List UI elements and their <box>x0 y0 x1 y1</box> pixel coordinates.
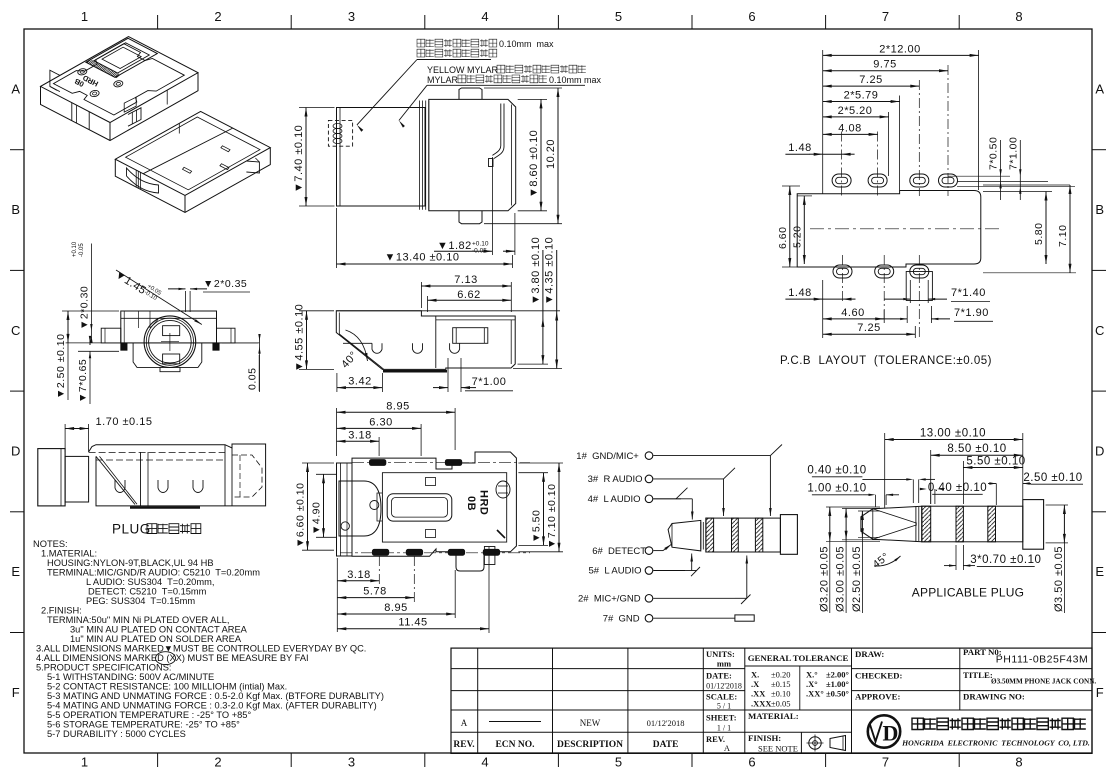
plug-in terminals <box>115 480 125 493</box>
wire 2# <box>653 597 735 599</box>
iso2 front grooves <box>135 170 137 187</box>
svg-text:2# MIC+/GND: 2# MIC+/GND <box>578 594 641 605</box>
applicable plug ring <box>915 506 917 542</box>
top view pads <box>369 460 386 466</box>
svg-text:-0.05: -0.05 <box>472 248 487 255</box>
svg-text:3.18: 3.18 <box>347 569 370 581</box>
svg-text:10.20: 10.20 <box>545 139 557 169</box>
svg-text:2.50 ±0.10: 2.50 ±0.10 <box>1023 472 1082 484</box>
svg-text:7*1.00: 7*1.00 <box>1007 137 1019 170</box>
svg-text:2: 2 <box>214 755 222 770</box>
svg-text:D: D <box>1095 444 1105 459</box>
plug-in interior verticals <box>140 452 142 506</box>
svg-text:5-3 MATING AND UNMATING FORCE: 5-3 MATING AND UNMATING FORCE : 0.5-2.0 … <box>47 691 384 701</box>
dim 2*5.20 <box>823 116 889 118</box>
svg-text:▼2*0.30: ▼2*0.30 <box>78 286 90 330</box>
barrel circles <box>144 316 196 368</box>
svg-text:5.PRODUCT SPECIFICATIONS:: 5.PRODUCT SPECIFICATIONS: <box>36 663 172 673</box>
svg-text:NOTES:: NOTES: <box>33 539 68 549</box>
svg-text:▼3.80 ±0.10: ▼3.80 ±0.10 <box>530 237 542 305</box>
svg-text:3: 3 <box>348 755 356 770</box>
svg-text:SEE NOTE: SEE NOTE <box>758 744 798 754</box>
svg-text:1: 1 <box>81 755 89 770</box>
svg-text:1.MATERIAL:: 1.MATERIAL: <box>41 549 97 559</box>
iso1 lid hatch edge <box>87 59 121 78</box>
title block outer <box>451 648 1092 753</box>
svg-text:DATE:: DATE: <box>706 671 732 681</box>
dim 7.25 top <box>823 85 920 87</box>
svg-text:7.25: 7.25 <box>857 322 880 334</box>
svg-text:6: 6 <box>748 9 756 24</box>
dimension 7.13 <box>420 282 422 308</box>
svg-text:11.45: 11.45 <box>398 617 427 629</box>
svg-text:±0.15: ±0.15 <box>771 679 791 689</box>
svg-text:F: F <box>1096 685 1104 700</box>
svg-text:SCALE:: SCALE: <box>706 692 737 702</box>
dim 9.75 <box>823 70 948 72</box>
dim dia 3.50 <box>1046 504 1068 506</box>
dim 1.48 bottom <box>785 298 810 300</box>
svg-text:5-7 DURABILITY : 5000 CYCLES: 5-7 DURABILITY : 5000 CYCLES <box>47 729 186 739</box>
svg-text:8: 8 <box>1015 755 1023 770</box>
svg-text:7*1.90: 7*1.90 <box>954 307 989 319</box>
dim 7.10 right top view <box>518 462 563 464</box>
svg-text:X.: X. <box>751 670 759 680</box>
svg-text:5-1 WITHSTANDING: 500V AC/MINU: 5-1 WITHSTANDING: 500V AC/MINUTE <box>47 672 214 682</box>
svg-text:X.°: X.° <box>806 670 818 680</box>
dim 6.60 left <box>782 185 800 187</box>
svg-text:5.80: 5.80 <box>1033 223 1045 245</box>
svg-text:REV.: REV. <box>706 734 725 744</box>
svg-text:6.30: 6.30 <box>369 416 392 428</box>
svg-text:PLUG: PLUG <box>112 522 151 537</box>
top view pad centerlines <box>352 462 530 464</box>
dimension 7*1.00 <box>447 358 449 392</box>
svg-text:.XX: .XX <box>751 689 766 699</box>
top view small squares <box>426 478 436 486</box>
pcb centerline <box>810 228 1000 230</box>
side view terminals <box>372 343 382 353</box>
iso2 mouth on front face <box>127 168 159 193</box>
title block vertical dividers <box>477 648 479 753</box>
svg-text:6: 6 <box>748 755 756 770</box>
iso2 silhouette <box>115 148 270 213</box>
svg-text:5.50 ±0.10: 5.50 ±0.10 <box>966 456 1025 468</box>
svg-text:E: E <box>11 564 20 579</box>
svg-text:DATE: DATE <box>653 740 679 750</box>
schematic hatched band 2 <box>732 518 739 552</box>
svg-text:▼1.82: ▼1.82 <box>437 240 472 252</box>
svg-text:0.05: 0.05 <box>247 368 259 390</box>
svg-text:3.ALL DIMENSIONS MARKED▼MUST B: 3.ALL DIMENSIONS MARKED▼MUST BE CONTROLL… <box>36 644 366 654</box>
svg-text:B: B <box>1095 202 1104 217</box>
svg-text:A: A <box>461 718 468 728</box>
callout chinese note 1 <box>417 39 497 47</box>
svg-text:±1.00°: ±1.00° <box>826 679 849 689</box>
svg-text:D: D <box>11 444 21 459</box>
svg-text:01/12'2018: 01/12'2018 <box>647 718 685 728</box>
dim 7.10 right <box>983 272 1076 274</box>
dimension 1.82 <box>491 157 493 255</box>
svg-text:7.13: 7.13 <box>454 274 477 286</box>
pcb slot pads bottom row <box>833 265 852 278</box>
svg-text:REV.: REV. <box>453 740 474 750</box>
svg-text:0.10mm max: 0.10mm max <box>549 75 602 85</box>
svg-text:A: A <box>724 743 731 753</box>
svg-text:C: C <box>1095 323 1105 338</box>
svg-text:5-2 CONTACT RESISTANCE: 100 MI: 5-2 CONTACT RESISTANCE: 100 MILLIOHM (in… <box>47 682 287 692</box>
iso2 inset contour <box>126 117 260 190</box>
svg-text:8: 8 <box>1015 9 1023 24</box>
dimension 1.45 diagonal <box>116 270 202 325</box>
svg-text:Ø3.20 ±0.05: Ø3.20 ±0.05 <box>818 546 830 612</box>
dim 2*5.79 <box>823 101 900 103</box>
dim 8.50 <box>930 450 932 504</box>
svg-text:6.62: 6.62 <box>457 289 480 301</box>
svg-text:Ø3.50 ±0.05: Ø3.50 ±0.05 <box>1053 546 1065 612</box>
top view screw feature <box>496 481 510 498</box>
svg-text:±0.50°: ±0.50° <box>826 689 849 699</box>
schematic hatched band 1 <box>706 518 714 552</box>
svg-text:7.10: 7.10 <box>1057 225 1069 247</box>
iso1 body silhouette <box>41 73 199 141</box>
svg-text:2*5.79: 2*5.79 <box>844 90 879 102</box>
dim 6.60 left top view <box>302 462 334 464</box>
top view left strip <box>337 463 353 556</box>
wire 4# <box>653 498 681 500</box>
svg-text:5.78: 5.78 <box>363 586 386 598</box>
svg-text:E: E <box>1095 564 1104 579</box>
svg-text:▼6.60 ±0.10: ▼6.60 ±0.10 <box>295 483 307 548</box>
iso2 top face <box>115 111 270 195</box>
front view J-slot <box>494 104 504 159</box>
leader 1 <box>357 60 417 125</box>
svg-text:+0.10: +0.10 <box>72 241 78 257</box>
iso1 left wing tab <box>50 70 60 91</box>
svg-text:4.60: 4.60 <box>841 307 864 319</box>
svg-text:DETECT: C5210 T=0.15mm: DETECT: C5210 T=0.15mm <box>88 587 207 597</box>
iso1 bottom tabs <box>128 108 141 126</box>
dimension 7*0.65 vertical <box>78 350 119 352</box>
svg-text:mm: mm <box>717 659 731 669</box>
svg-text:▼13.40 ±0.10: ▼13.40 ±0.10 <box>385 252 460 264</box>
svg-text:1# GND/MIC+: 1# GND/MIC+ <box>576 451 639 462</box>
barrel inner slots <box>163 326 180 336</box>
plug-in hidden dash lines <box>89 452 225 454</box>
applicable plug cone lines <box>873 509 917 523</box>
svg-text:SHEET:: SHEET: <box>706 713 737 723</box>
schematic plug rings <box>700 522 702 550</box>
svg-text:5-4 MATING AND UNMATING FORCE: 5-4 MATING AND UNMATING FORCE : 0.3-2.0 … <box>47 701 377 711</box>
front view dashed spring box <box>328 120 352 146</box>
top view center slot <box>387 494 452 521</box>
dim 3*0.70 <box>955 545 957 570</box>
plug shaft <box>65 456 89 502</box>
schematic plug body <box>706 518 781 552</box>
svg-text:▼8.60 ±0.10: ▼8.60 ±0.10 <box>528 130 540 198</box>
dim 7.25 bottom <box>914 326 916 338</box>
applicable plug tip <box>861 506 922 542</box>
svg-text:D: D <box>883 721 899 746</box>
wire 6# <box>653 550 663 552</box>
plug handle <box>38 449 65 506</box>
dimension 0.05 <box>222 342 258 344</box>
front view hatch joint lines <box>419 101 421 210</box>
barrel view side tabs <box>101 328 121 343</box>
dim dia 2.50 <box>858 510 880 512</box>
dim 6.30 top <box>420 424 422 456</box>
dim 4.60 <box>883 310 885 323</box>
svg-text:TERMINA:50u" MIN Ni PLATED OVE: TERMINA:50u" MIN Ni PLATED OVER ALL, <box>47 615 229 625</box>
svg-text:2*5.20: 2*5.20 <box>838 105 873 117</box>
dim 11.45 <box>488 547 490 633</box>
svg-text:5.20: 5.20 <box>791 226 803 248</box>
side view interior <box>435 316 437 368</box>
schematic hatched band 3 <box>755 518 762 552</box>
svg-text:APPROVE:: APPROVE: <box>855 692 901 702</box>
iso2 small holes <box>221 146 230 152</box>
iso1 right steps <box>88 112 90 130</box>
pcb slot pads top row <box>832 174 851 187</box>
side view thick base line <box>383 370 447 373</box>
dim 5.80 right <box>983 191 1052 193</box>
svg-text:3.42: 3.42 <box>348 376 371 388</box>
iso1 right face detail <box>166 90 168 104</box>
svg-text:3# R AUDIO: 3# R AUDIO <box>588 474 643 485</box>
svg-text:6.60: 6.60 <box>777 227 789 249</box>
svg-text:8.95: 8.95 <box>384 602 407 614</box>
plug tip dashed inside <box>232 455 262 497</box>
barrel view seating line <box>66 342 260 344</box>
angle 45 <box>874 556 901 566</box>
svg-text:7: 7 <box>882 9 890 24</box>
svg-text:3.18: 3.18 <box>348 429 371 441</box>
svg-text:0B: 0B <box>465 496 477 511</box>
dim 13.00 <box>884 433 886 508</box>
svg-text:HOUSING:NYLON-9T,BLACK,UL 94 H: HOUSING:NYLON-9T,BLACK,UL 94 HB <box>47 558 214 568</box>
svg-text:8.50 ±0.10: 8.50 ±0.10 <box>947 443 1006 455</box>
dimension 7.40 vertical <box>299 107 335 109</box>
leader 2 <box>399 85 427 120</box>
dim 7*0.50 vertical <box>1000 140 1002 200</box>
svg-text:HRD: HRD <box>478 490 490 515</box>
dimension 2*0.30 vertical <box>90 244 92 339</box>
title block horizontal lines <box>451 668 745 670</box>
svg-text:7.25: 7.25 <box>859 74 882 86</box>
svg-text:F: F <box>12 685 20 700</box>
svg-text:Ø3.00 ±0.05: Ø3.00 ±0.05 <box>835 546 847 612</box>
schematic sleeve <box>780 515 797 555</box>
svg-text:.X: .X <box>751 679 760 689</box>
top view pad4 box <box>484 547 495 565</box>
svg-text:▼7*0.65: ▼7*0.65 <box>77 359 89 403</box>
svg-text:7*1.00: 7*1.00 <box>472 376 507 388</box>
svg-text:▼4.35 ±0.10: ▼4.35 ±0.10 <box>544 237 556 305</box>
svg-text:DRAW:: DRAW: <box>855 649 884 659</box>
front view top tab <box>459 88 482 99</box>
svg-text:4: 4 <box>481 755 489 770</box>
dim 4.90 left top view <box>316 473 337 475</box>
side view outline <box>336 311 515 370</box>
dimension 2*0.35 <box>185 291 187 312</box>
svg-text:.XX°: .XX° <box>806 689 824 699</box>
wire 5# <box>653 570 685 572</box>
svg-text:3: 3 <box>348 9 356 24</box>
svg-text:▼7.40 ±0.10: ▼7.40 ±0.10 <box>293 125 305 193</box>
svg-text:7*1.40: 7*1.40 <box>951 287 986 299</box>
barrel feet <box>121 343 127 350</box>
svg-text:▼2.50 ±0.10: ▼2.50 ±0.10 <box>55 334 67 399</box>
svg-text:FINISH:: FINISH: <box>748 733 781 743</box>
svg-text:5-6 STORAGE TEMPERATURE: -25°: 5-6 STORAGE TEMPERATURE: -25° TO +85° <box>47 720 240 730</box>
dimension 8.60 vertical <box>518 98 547 100</box>
svg-text:2*12.00: 2*12.00 <box>879 43 920 55</box>
svg-text:DESCRIPTION: DESCRIPTION <box>557 740 623 750</box>
svg-text:2.FINISH:: 2.FINISH: <box>41 606 82 616</box>
svg-text:5: 5 <box>615 9 623 24</box>
iso2 right tab <box>246 161 259 173</box>
svg-text:2: 2 <box>214 9 222 24</box>
svg-text:MYLAR: MYLAR <box>427 75 459 85</box>
iso2 split line <box>143 128 233 174</box>
dim 5.50 right top view <box>518 472 548 474</box>
svg-text:-0.05: -0.05 <box>79 243 85 257</box>
svg-text:B: B <box>11 202 20 217</box>
svg-text:▼5.50: ▼5.50 <box>531 510 543 543</box>
dim dia 3.20 <box>826 506 880 508</box>
svg-text:3u" MIN AU PLATED ON CONTACT A: 3u" MIN AU PLATED ON CONTACT AREA <box>70 625 248 635</box>
dim 3.18 bottom <box>336 558 338 632</box>
svg-text:1.00 ±0.10: 1.00 ±0.10 <box>807 483 866 495</box>
svg-text:±0.20: ±0.20 <box>771 670 791 680</box>
schematic plug tip <box>668 520 701 551</box>
svg-text:4.08: 4.08 <box>838 122 861 134</box>
svg-text:1 / 1: 1 / 1 <box>717 724 731 733</box>
pcb slot centerlines vertical <box>841 132 843 197</box>
iso1 screw holes <box>77 68 87 76</box>
dimension 3.42 <box>336 373 338 392</box>
svg-text:7*0.50: 7*0.50 <box>988 137 1000 170</box>
svg-text:±2.00°: ±2.00° <box>826 670 849 680</box>
svg-text:01/12'2018: 01/12'2018 <box>706 682 742 691</box>
dim 8.95 top <box>336 408 338 456</box>
pcb right ext lines <box>948 175 1010 177</box>
iso1 front face grooves <box>76 105 78 123</box>
svg-text:▼2*0.35: ▼2*0.35 <box>203 278 247 290</box>
svg-text:8.95: 8.95 <box>386 400 409 412</box>
dim dia 3.00 <box>842 508 880 510</box>
dimension 4.55 vertical <box>299 310 334 312</box>
svg-text:Ø2.50 ±0.05: Ø2.50 ±0.05 <box>851 546 863 612</box>
svg-text:PEG: SUS304 T=0.15mm: PEG: SUS304 T=0.15mm <box>86 596 195 606</box>
barrel interior details <box>138 311 140 328</box>
svg-text:ECN NO.: ECN NO. <box>495 740 534 750</box>
svg-text:GENERAL TOLERANCE: GENERAL TOLERANCE <box>748 653 849 663</box>
projection symbol cone <box>830 736 846 751</box>
svg-text:1.48: 1.48 <box>788 287 811 299</box>
front view spring detail <box>333 123 342 128</box>
dim 2*12.00 <box>823 54 979 56</box>
svg-text:13.00 ±0.10: 13.00 ±0.10 <box>920 428 986 440</box>
svg-text:6# DETECT: 6# DETECT <box>592 546 646 557</box>
dim 7*1.00 vertical <box>1019 140 1021 200</box>
front view bottom tab <box>459 211 482 224</box>
svg-text:HONGRIDA ELECTRONIC TECHNOLO: HONGRIDA ELECTRONIC TECHNOLOGY CO, LTD. <box>901 739 1090 748</box>
svg-text:7: 7 <box>882 755 890 770</box>
svg-text:±0.10: ±0.10 <box>771 689 791 699</box>
top view D barrel <box>339 481 381 536</box>
svg-text:UNITS:: UNITS: <box>706 649 735 659</box>
svg-text:DRAWING NO:: DRAWING NO: <box>963 692 1025 702</box>
front view right shell <box>429 99 516 210</box>
dim 3.18 top <box>378 437 380 456</box>
svg-text:NEW: NEW <box>580 718 601 728</box>
barrel view upper body <box>121 311 217 343</box>
svg-text:5-5 OPERATION TEMPERATURE : -2: 5-5 OPERATION TEMPERATURE : -25° TO +85° <box>47 710 251 720</box>
dimension 10.20 vertical <box>484 87 562 89</box>
svg-text:5# L AUDIO: 5# L AUDIO <box>589 566 642 577</box>
top view inner shield rect <box>382 473 506 542</box>
top view main body <box>352 452 516 571</box>
pcb pad7 box <box>906 272 932 301</box>
svg-text:MATERIAL:: MATERIAL: <box>748 711 799 721</box>
dimension 6.62 <box>427 296 429 312</box>
svg-text:A: A <box>11 81 20 96</box>
wire 1# <box>653 455 770 457</box>
svg-text:▼7.10 ±0.10: ▼7.10 ±0.10 <box>546 484 558 549</box>
svg-text:0.40 ±0.10: 0.40 ±0.10 <box>928 482 987 494</box>
svg-text:Ø3.50MM PHONE JACK CONN.: Ø3.50MM PHONE JACK CONN. <box>991 678 1096 686</box>
barrel view lower body <box>133 343 202 368</box>
svg-text:9.75: 9.75 <box>873 59 896 71</box>
dimension 2.50 vertical <box>62 310 119 312</box>
pcb stacked dims left ext line <box>822 50 824 194</box>
applicable plug body <box>922 506 1023 542</box>
plug-in base thick line <box>130 506 200 508</box>
svg-text:L AUDIO: SUS304 T=0.20mm,: L AUDIO: SUS304 T=0.20mm, <box>86 577 214 587</box>
svg-text:APPLICABLE PLUG: APPLICABLE PLUG <box>912 586 1024 600</box>
svg-text:P.C.B LAYOUT (TOLERANCE:±0.0: P.C.B LAYOUT (TOLERANCE:±0.05) <box>780 355 992 367</box>
dim 5.20 left <box>797 195 812 197</box>
dim 7*1.90 <box>906 306 908 323</box>
applicable plug sleeve <box>1023 500 1044 550</box>
dimension 4.35 vertical <box>513 368 562 370</box>
front view outline <box>337 108 426 207</box>
svg-text:4: 4 <box>481 9 489 24</box>
svg-text:1.48: 1.48 <box>788 142 811 154</box>
svg-text:5 / 1: 5 / 1 <box>717 702 731 711</box>
projection symbol target <box>809 737 821 749</box>
dim 7*1.40 <box>909 280 911 303</box>
svg-text:+0.10: +0.10 <box>472 241 489 248</box>
svg-text:.XXX: .XXX <box>751 698 772 708</box>
dimension 1.70 <box>64 424 66 452</box>
iso1 wavy contour <box>54 44 185 115</box>
note 4 XX circle <box>156 652 176 665</box>
dimension 3.80 vertical <box>518 363 549 365</box>
svg-text:CHECKED:: CHECKED: <box>855 671 902 681</box>
svg-text:YELLOW MYLAR: YELLOW MYLAR <box>427 65 501 75</box>
svg-text:A: A <box>1095 81 1104 96</box>
svg-text:.X°: .X° <box>806 679 818 689</box>
angle 40 <box>346 330 368 361</box>
dim 8.95 bottom <box>454 570 456 618</box>
wire 7# <box>653 617 735 619</box>
svg-text:5: 5 <box>615 755 623 770</box>
dimension 13.40 <box>336 208 338 268</box>
svg-text:TERMINAL:MIC/GND/R AUDIO: C521: TERMINAL:MIC/GND/R AUDIO: C5210 T=0.20mm <box>47 568 260 578</box>
svg-text:±0.05: ±0.05 <box>771 698 791 708</box>
